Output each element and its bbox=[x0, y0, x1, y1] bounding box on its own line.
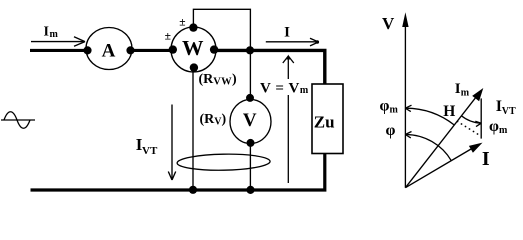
vector IVT segment bbox=[480, 98, 482, 138]
wire bottom main bbox=[31, 154, 325, 191]
AC source sine symbol bbox=[1, 112, 35, 129]
svg-text:φ: φ bbox=[386, 122, 396, 139]
arc phi left bbox=[406, 135, 452, 161]
voltmeter V1 bbox=[230, 100, 271, 144]
arc phi-m left bbox=[406, 108, 455, 125]
arrow IVT down bbox=[168, 105, 175, 181]
arrow Im (current into circuit) bbox=[31, 37, 85, 46]
wire V branch upper bbox=[249, 52, 251, 98]
node junction top bbox=[246, 46, 254, 54]
dotted projection line bbox=[457, 121, 479, 135]
node junction bottom left bbox=[189, 186, 197, 194]
current transformer ellipse bbox=[177, 153, 270, 171]
svg-text:VT: VT bbox=[142, 145, 158, 157]
node dot A right bbox=[126, 46, 134, 54]
wire V branch lower bbox=[249, 143, 251, 190]
svg-text:I: I bbox=[284, 25, 290, 41]
svg-text:Zu: Zu bbox=[314, 113, 335, 132]
svg-text:V: V bbox=[243, 110, 257, 131]
axis V bbox=[404, 22, 406, 188]
node dot W bottom bbox=[190, 63, 198, 71]
svg-text:H: H bbox=[443, 103, 455, 120]
node dot A left bbox=[83, 46, 91, 54]
svg-text:I: I bbox=[482, 148, 490, 170]
load Zu bbox=[312, 84, 343, 154]
wire W bottom branch bbox=[192, 68, 194, 190]
wattmeter W1 bbox=[171, 27, 216, 72]
node dot W right bbox=[210, 45, 218, 53]
vector I bbox=[405, 146, 477, 188]
svg-text:m: m bbox=[461, 88, 470, 99]
ammeter A1 bbox=[86, 28, 132, 70]
wire top main bbox=[30, 50, 325, 84]
node dot W top bbox=[189, 23, 197, 31]
node dot V top bbox=[246, 94, 254, 102]
svg-text:V: V bbox=[382, 14, 395, 33]
arrow V=Vm vertical bbox=[287, 58, 289, 183]
wire W voltage coil loop bbox=[193, 9, 250, 48]
svg-text:±: ± bbox=[165, 31, 171, 43]
svg-text:I: I bbox=[44, 24, 49, 39]
node junction bottom right bbox=[246, 186, 254, 194]
svg-text:(RV): (RV) bbox=[200, 112, 227, 128]
svg-text:±: ± bbox=[179, 16, 185, 28]
label V = Vm bbox=[257, 79, 309, 95]
arrow I right bbox=[266, 38, 319, 46]
vector Im bbox=[405, 93, 479, 187]
svg-text:VT: VT bbox=[502, 106, 516, 117]
svg-text:A: A bbox=[102, 40, 116, 61]
arc phi-m small at Im tip bbox=[461, 116, 481, 124]
svg-text:m: m bbox=[50, 29, 59, 40]
node dot V bottom bbox=[247, 139, 255, 147]
svg-text:W: W bbox=[182, 36, 204, 60]
node dot W left bbox=[169, 45, 177, 53]
